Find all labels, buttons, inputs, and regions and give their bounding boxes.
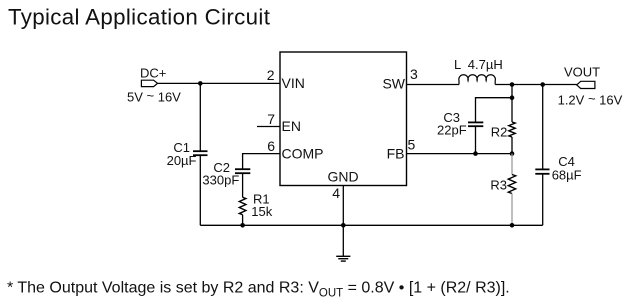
wire SW node down to C3/R2: [511, 85, 513, 123]
svg-text:6: 6: [267, 138, 275, 154]
svg-text:R3: R3: [490, 178, 507, 193]
node junction C3/R2: [510, 95, 515, 100]
svg-text:EN: EN: [282, 118, 301, 134]
capacitor C1: [193, 151, 208, 155]
resistor R2: [509, 122, 515, 137]
connector VOUT tag: [577, 81, 595, 88]
svg-text:3: 3: [410, 66, 418, 82]
svg-text:DC+: DC+: [140, 66, 166, 81]
node junction at C1 branch: [198, 81, 203, 86]
svg-text:5: 5: [408, 136, 416, 152]
svg-text:L: L: [454, 57, 461, 72]
wire C1 to ground rail: [199, 155, 201, 225]
wire COMP to C2: [243, 154, 280, 169]
svg-text:4: 4: [332, 185, 340, 201]
svg-text:7: 7: [267, 111, 275, 127]
wire R2 to FB line: [511, 137, 513, 154]
wire inductor to VOUT: [495, 84, 577, 86]
svg-text:15k: 15k: [251, 204, 272, 219]
wire GND pin down: [342, 186, 344, 257]
svg-text:VOUT: VOUT: [564, 64, 600, 79]
svg-text:COMP: COMP: [282, 146, 324, 162]
resistor R1: [239, 197, 246, 214]
capacitor C3: [468, 122, 483, 126]
node junction R3/rail: [510, 223, 515, 228]
connector DC+ tag: [141, 80, 157, 86]
svg-text:330pF: 330pF: [202, 172, 239, 187]
svg-text:* The Output Voltage is set by: * The Output Voltage is set by R2 and R3…: [7, 280, 510, 300]
wire C4 branch down: [542, 85, 544, 170]
resistor R3: [508, 175, 515, 194]
node junction at C4 branch: [540, 82, 545, 87]
wire EN stub: [257, 126, 280, 128]
wire R3 to ground rail (gray): [511, 194, 513, 226]
node junction C3/FB: [473, 151, 478, 156]
capacitor C4: [535, 169, 549, 173]
svg-text:SW: SW: [382, 76, 405, 92]
svg-text:22pF: 22pF: [437, 122, 467, 137]
wire ground rail: [200, 224, 542, 226]
inductor L 4.7µH: [459, 75, 496, 85]
wire junction down to C1: [199, 83, 201, 151]
svg-text:5V ~ 16V: 5V ~ 16V: [127, 88, 181, 105]
svg-text:20µF: 20µF: [167, 153, 197, 168]
svg-text:GND: GND: [327, 168, 358, 184]
wire FB node down to R3 (gray): [511, 154, 513, 175]
svg-text:Typical Application Circuit: Typical Application Circuit: [8, 4, 271, 29]
wire R1 to ground rail: [242, 215, 244, 226]
node junction GND/rail: [341, 223, 346, 228]
node junction R1/rail: [240, 223, 245, 228]
wire SW to inductor: [407, 84, 460, 86]
wire C3 to FB line: [475, 126, 477, 153]
node junction R2/R3/FB: [510, 151, 515, 156]
svg-text:68µF: 68µF: [552, 167, 582, 182]
ground: [336, 256, 350, 261]
wire junction to C3: [476, 98, 513, 123]
svg-text:2: 2: [267, 67, 275, 83]
capacitor C2: [235, 169, 250, 173]
op-amp U1 (IC body): [280, 52, 407, 186]
svg-text:1.2V ~ 16V: 1.2V ~ 16V: [558, 91, 623, 108]
wire C2 to R1: [242, 173, 244, 197]
wire DC+ to VIN: [158, 82, 280, 84]
node junction at R2 branch: [510, 82, 515, 87]
wire C4 to ground rail: [542, 174, 544, 226]
wire FB to R2 node: [407, 153, 513, 155]
svg-text:4.7µH: 4.7µH: [468, 57, 503, 72]
svg-text:FB: FB: [387, 146, 405, 162]
svg-text:VIN: VIN: [282, 75, 305, 91]
svg-text:R2: R2: [491, 124, 508, 139]
